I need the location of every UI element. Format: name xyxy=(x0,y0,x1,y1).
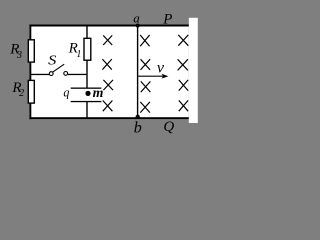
wire: switch branch left segment xyxy=(30,74,49,75)
circuit interior white region xyxy=(29,25,188,120)
wire: capacitor bottom plate to bottom rail xyxy=(86,102,87,117)
wire: top rail P (horizontal) xyxy=(29,25,188,27)
field symbol x row1 col1 xyxy=(103,35,112,45)
svg-text:a: a xyxy=(133,10,140,25)
svg-text:S: S xyxy=(48,52,57,67)
charged particle m (dot between plates) xyxy=(85,91,90,96)
node a (junction dot) xyxy=(136,24,140,28)
field symbol x row1 col2 xyxy=(140,35,149,46)
field symbol x row3 col3 xyxy=(179,80,188,91)
capacitor bottom plate xyxy=(71,101,102,102)
field symbol x row1 col3 xyxy=(178,35,188,46)
resistor R2 (box on left branch) xyxy=(28,80,34,103)
svg-text:Q: Q xyxy=(163,119,174,135)
field symbol x row4 col1 xyxy=(103,101,113,112)
field symbol x row3 col1 xyxy=(103,80,113,90)
wire: left vertical branch xyxy=(29,25,31,120)
svg-text:P: P xyxy=(162,11,172,27)
wire: switch branch right segment xyxy=(68,74,86,75)
svg-text:v: v xyxy=(157,60,165,77)
velocity arrow v xyxy=(138,75,164,77)
svg-text:m: m xyxy=(93,85,104,100)
svg-text:b: b xyxy=(134,119,142,136)
resistor R3 (box on left branch) xyxy=(28,40,34,62)
wire: middle branch, R1 to capacitor top plate xyxy=(86,61,87,88)
field symbol x row4 col2 xyxy=(140,102,150,113)
node b (junction dot) xyxy=(136,115,140,119)
wire: middle branch, top rail to R1 xyxy=(86,26,87,38)
sliding conductor bar (white, covers rail ends) xyxy=(189,18,198,123)
resistor R1 (box on middle branch) xyxy=(84,38,91,60)
switch S left contact circle xyxy=(49,72,53,76)
svg-text:q: q xyxy=(63,85,69,100)
field symbol x row2 col3 xyxy=(178,59,188,70)
wire: bottom rail Q (horizontal) xyxy=(29,117,188,119)
capacitor top plate xyxy=(71,88,102,89)
switch S right contact circle xyxy=(64,72,68,76)
field symbol x row2 col1 xyxy=(102,59,111,70)
field symbol x row3 col2 xyxy=(141,81,151,92)
field symbol x row4 col3 xyxy=(179,100,188,111)
wire: vertical conductor ab xyxy=(137,25,138,118)
switch S lever xyxy=(53,64,64,72)
field symbol x row2 col2 xyxy=(141,59,151,70)
